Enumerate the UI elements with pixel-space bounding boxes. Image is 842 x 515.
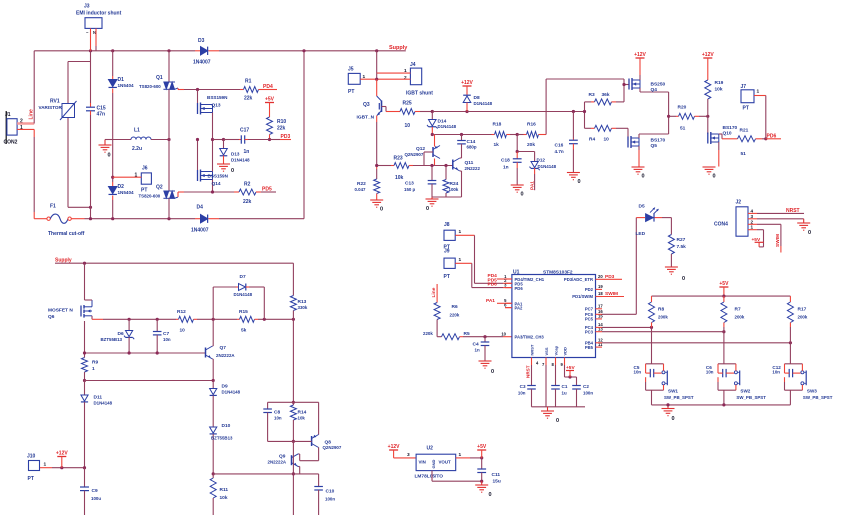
net label PD3 pin20: [602, 278, 622, 280]
svg-text:PA1: PA1: [530, 181, 536, 190]
svg-text:15u: 15u: [493, 479, 501, 485]
svg-text:22k: 22k: [244, 96, 253, 102]
svg-text:~: ~: [86, 30, 89, 35]
svg-text:C10: C10: [326, 489, 335, 495]
resistor R27 7.5k: [668, 235, 674, 255]
wire switch ground bus: [652, 404, 791, 406]
resistor R23 10k: [377, 165, 391, 167]
svg-text:47n: 47n: [97, 112, 106, 118]
wire J4 pin2: [377, 78, 411, 80]
svg-text:2N2222: 2N2222: [465, 166, 481, 171]
svg-text:+5V: +5V: [265, 97, 275, 103]
svg-text:100n: 100n: [583, 391, 593, 396]
svg-text:+12V: +12V: [388, 444, 400, 450]
svg-text:R16: R16: [527, 122, 536, 128]
svg-text:Q2N2907: Q2N2907: [323, 445, 342, 450]
svg-text:PT: PT: [348, 89, 354, 95]
svg-text:Q14: Q14: [212, 181, 221, 187]
wire main vertical lower: [292, 441, 294, 515]
capacitor C12 10n: [784, 364, 786, 369]
resistor R1 22k: [240, 89, 244, 91]
svg-text:1N4007: 1N4007: [193, 60, 211, 66]
wire J4 pin1: [377, 72, 411, 74]
wire mid node to C17: [213, 139, 224, 141]
svg-text:R27: R27: [677, 237, 686, 243]
svg-text:0: 0: [713, 174, 716, 180]
svg-text:22k: 22k: [277, 126, 286, 132]
diode D3 1N4007: [195, 50, 200, 52]
resistor R22 0.047: [376, 166, 378, 170]
power +12V Q4: [636, 57, 645, 59]
svg-text:D7: D7: [240, 274, 246, 280]
wire Q1 gate line: [177, 88, 179, 90]
transistor Q12 Q2N2907: [434, 135, 436, 147]
svg-text:J6: J6: [142, 166, 148, 172]
svg-text:9: 9: [561, 362, 564, 367]
resistor R16 20k: [517, 134, 523, 136]
wire switch branch bottom SW1: [646, 389, 664, 391]
svg-text:PA2: PA2: [515, 306, 524, 311]
pin stub PA2: [505, 307, 512, 309]
diode D13 D1N4148: [223, 140, 225, 149]
svg-text:0: 0: [380, 207, 383, 213]
wire Q3 gate: [382, 106, 387, 108]
svg-text:PC5: PC5: [585, 317, 594, 322]
svg-text:Vcap: Vcap: [554, 345, 559, 355]
ground 0 under C13: [431, 197, 433, 199]
svg-text:2.2u: 2.2u: [132, 146, 142, 152]
svg-text:R5: R5: [464, 331, 470, 337]
svg-text:Q2: Q2: [156, 185, 163, 191]
svg-text:PD6: PD6: [515, 286, 524, 291]
svg-text:STM8S103F2: STM8S103F2: [543, 270, 573, 276]
svg-text:2: 2: [404, 75, 407, 81]
svg-text:680p: 680p: [467, 145, 477, 150]
power +12V R19: [703, 57, 712, 59]
wire top bus: [34, 50, 195, 52]
igbt Q3 IGBT_N: [376, 79, 378, 96]
svg-text:10k: 10k: [298, 416, 306, 421]
svg-text:0: 0: [556, 418, 559, 424]
net label PD4: [497, 278, 512, 280]
wire D4 return vertical: [219, 218, 304, 220]
svg-text:7.5k: 7.5k: [677, 244, 687, 250]
svg-text:1N5404: 1N5404: [118, 190, 135, 195]
svg-text:BSS159N: BSS159N: [207, 95, 228, 100]
svg-text:220k: 220k: [450, 313, 460, 318]
svg-text:GND: GND: [431, 460, 436, 469]
svg-text:0: 0: [489, 492, 492, 498]
wire pullup rail: [652, 295, 791, 297]
diode D8 D1N4148: [463, 96, 471, 102]
wire Supply vertical: [376, 51, 378, 73]
svg-text:R21: R21: [740, 128, 749, 134]
diode D12 D1N4148: [517, 151, 534, 153]
svg-text:PT: PT: [444, 274, 450, 280]
ground 0 under C16: [567, 172, 580, 174]
wire switch branch top SW2: [723, 332, 725, 364]
svg-text:Thermal cut-off: Thermal cut-off: [48, 231, 85, 237]
svg-text:8: 8: [552, 362, 555, 367]
svg-text:C11: C11: [492, 472, 501, 478]
resistor R5 220k: [437, 336, 441, 338]
svg-text:10n: 10n: [518, 391, 526, 396]
svg-text:R17: R17: [798, 307, 807, 313]
svg-text:R6: R6: [452, 304, 458, 310]
wire supply rail: [55, 262, 293, 264]
resistor R4 10: [585, 127, 592, 129]
capacitor C2 100n: [572, 385, 581, 387]
svg-text:SW1: SW1: [668, 389, 678, 394]
wire Q6 source line: [103, 318, 176, 320]
wire LED to R27: [655, 217, 663, 219]
svg-text:3: 3: [751, 214, 754, 219]
ground 0 under R22: [370, 199, 383, 201]
svg-text:10n: 10n: [772, 370, 780, 375]
wire switch branch top SW1: [651, 327, 653, 363]
net label PD6: [766, 138, 781, 140]
svg-text:NRST: NRST: [526, 365, 531, 378]
svg-text:R25: R25: [403, 101, 412, 107]
svg-text:D1N4148: D1N4148: [438, 124, 457, 129]
svg-text:J9: J9: [444, 249, 450, 255]
svg-text:PD5: PD5: [262, 187, 272, 193]
mosfet Q4 BS250: [628, 79, 630, 90]
resistor R3 36k: [585, 101, 592, 103]
svg-text:10: 10: [604, 137, 610, 143]
svg-text:0: 0: [108, 153, 111, 159]
resistor R19 10k: [705, 80, 711, 99]
resistor R13 330k: [292, 263, 294, 295]
svg-text:3: 3: [407, 452, 410, 458]
svg-text:BS250: BS250: [651, 82, 666, 88]
ground 0 switches: [667, 405, 669, 408]
wire R18 line: [432, 134, 491, 136]
capacitor C16 4.7n: [572, 112, 574, 139]
diode D7 D1N4148: [212, 287, 214, 319]
svg-text:36k: 36k: [602, 92, 610, 98]
svg-text:J8: J8: [444, 222, 450, 228]
resistor R25 10: [400, 109, 415, 115]
svg-text:D12: D12: [537, 158, 546, 163]
diode D2 1N5404: [112, 140, 114, 183]
svg-text:10n: 10n: [706, 370, 714, 375]
svg-text:5k: 5k: [241, 328, 247, 334]
svg-text:10k: 10k: [220, 495, 228, 501]
svg-text:100n: 100n: [325, 497, 335, 502]
fuse F1 Thermal cut-off: [34, 218, 47, 220]
wire J6 pin1: [113, 176, 142, 178]
svg-text:2N2222A: 2N2222A: [216, 353, 235, 358]
capacitor C1 1u: [551, 385, 560, 387]
svg-text:PD3/ADC_ETR: PD3/ADC_ETR: [564, 277, 593, 282]
capacitor C15 47n: [90, 51, 92, 103]
wire R13 down to snubber box: [292, 319, 294, 402]
svg-text:7: 7: [542, 362, 545, 367]
resistor R12 10: [176, 318, 179, 320]
svg-text:1: 1: [757, 89, 760, 95]
svg-text:PT: PT: [743, 106, 749, 112]
net label PD4: [262, 89, 277, 91]
svg-text:PA1: PA1: [486, 298, 495, 304]
svg-text:C2: C2: [583, 384, 589, 389]
svg-text:C7: C7: [163, 331, 169, 337]
svg-text:1: 1: [459, 229, 462, 235]
svg-text:C17: C17: [240, 128, 249, 134]
svg-text:R20: R20: [678, 105, 687, 111]
svg-text:PD1/SWIM: PD1/SWIM: [572, 294, 593, 299]
switch SW3 SW_PB_SPST: [801, 371, 804, 374]
svg-text:D1N4148: D1N4148: [94, 401, 113, 406]
svg-text:R18: R18: [493, 122, 502, 128]
svg-text:PT: PT: [28, 476, 34, 482]
resistor R15 5k: [237, 318, 240, 320]
svg-text:Line: Line: [29, 109, 35, 119]
svg-text:2N2222A: 2N2222A: [268, 459, 287, 464]
wire left vertical to bus: [33, 51, 35, 124]
svg-text:PD3: PD3: [281, 134, 291, 140]
svg-text:C1: C1: [562, 384, 568, 389]
wire pin12 to R17: [602, 342, 790, 344]
capacitor C10 100n: [318, 474, 320, 487]
svg-text:C16: C16: [555, 143, 564, 149]
svg-text:U2: U2: [427, 446, 434, 452]
wire Q2 gate line: [177, 192, 179, 197]
capacitor C6 10n: [717, 364, 719, 369]
transistor Q8 Q2N2907: [318, 402, 320, 434]
svg-text:SW2: SW2: [740, 389, 750, 394]
svg-text:330k: 330k: [298, 305, 308, 310]
wire J10 pin1: [40, 467, 52, 469]
svg-text:0: 0: [672, 416, 675, 422]
svg-text:U1: U1: [513, 270, 520, 276]
svg-text:RV1: RV1: [50, 99, 60, 105]
svg-text:TS820-600: TS820-600: [139, 84, 161, 89]
ground 0 at D13: [217, 163, 230, 165]
svg-text:10n: 10n: [634, 370, 642, 375]
svg-text:10n: 10n: [274, 416, 282, 421]
capacitor C18 1n: [516, 135, 518, 152]
svg-text:D1N4148: D1N4148: [234, 292, 253, 297]
svg-text:D1N4148: D1N4148: [222, 390, 241, 395]
wire J2 pin2 SWIM: [748, 223, 757, 225]
connector J1 CON2: [5, 111, 7, 144]
wire Q8 collector to Q9: [300, 460, 319, 462]
svg-text:Line: Line: [431, 287, 437, 297]
svg-text:D4: D4: [197, 205, 204, 211]
svg-text:BZT55B13: BZT55B13: [211, 436, 233, 441]
ic U2 LM78L05: [416, 454, 456, 470]
svg-text:220k: 220k: [423, 331, 433, 336]
resistor R20 51: [669, 115, 676, 117]
svg-text:1N5404: 1N5404: [118, 83, 135, 88]
svg-text:10n: 10n: [163, 337, 171, 342]
svg-text:10: 10: [405, 123, 411, 129]
svg-text:10: 10: [501, 331, 506, 336]
ground 0 under Q10: [703, 166, 716, 168]
svg-text:D1N4148: D1N4148: [538, 164, 557, 169]
svg-text:1: 1: [459, 257, 462, 263]
svg-text:2: 2: [751, 219, 754, 224]
wire J2 pin1 +5V: [748, 229, 757, 231]
net label PD3: [270, 139, 281, 141]
svg-text:1n: 1n: [475, 348, 480, 353]
svg-text:PD6: PD6: [488, 282, 498, 288]
svg-text:17: 17: [598, 304, 603, 309]
wire Q11 emitter bottom: [432, 196, 462, 198]
svg-text:Supply: Supply: [55, 258, 72, 264]
svg-text:J10: J10: [27, 454, 36, 460]
svg-text:SW_PB_SPST: SW_PB_SPST: [664, 395, 694, 400]
wire R11 C10 link: [213, 473, 318, 475]
power +5V U2: [477, 449, 486, 451]
wire totem output: [668, 92, 670, 134]
svg-text:19: 19: [598, 284, 603, 289]
ground 0 at J2: [797, 222, 810, 224]
wire split node R3 R4: [584, 102, 586, 112]
svg-text:BZT55B13: BZT55B13: [101, 337, 123, 342]
svg-text:150 p: 150 p: [404, 187, 416, 192]
resistor R11 10k: [210, 478, 216, 498]
svg-text:0.047: 0.047: [355, 187, 367, 192]
svg-text:+12V: +12V: [702, 52, 714, 58]
ground 0 under C4: [479, 360, 492, 362]
resistor R21 51: [738, 136, 756, 142]
svg-text:1n: 1n: [503, 165, 509, 171]
svg-text:IGBT_N: IGBT_N: [357, 115, 375, 121]
wire switch branch bottom SW3: [785, 389, 803, 391]
transistor Q9 2N2222A: [291, 455, 293, 465]
svg-text:1N4007: 1N4007: [191, 228, 209, 234]
svg-text:0: 0: [521, 192, 524, 198]
wire J2 pin3 to ground: [748, 218, 757, 220]
svg-text:PD3: PD3: [605, 274, 615, 280]
svg-text:PD2: PD2: [585, 287, 594, 292]
wire bottom bus: [85, 218, 196, 220]
svg-text:R10: R10: [277, 119, 286, 125]
power +12V U2: [389, 449, 398, 451]
svg-text:Q3: Q3: [363, 102, 370, 108]
svg-text:51: 51: [741, 151, 747, 157]
svg-text:R19: R19: [715, 80, 724, 86]
wire RV1 branch bottom: [68, 206, 91, 208]
svg-text:1k: 1k: [494, 142, 500, 148]
svg-text:CON2: CON2: [4, 140, 18, 146]
svg-text:R23: R23: [394, 156, 403, 162]
svg-text:R12: R12: [177, 309, 186, 315]
svg-text:0: 0: [491, 369, 494, 375]
svg-text:D10: D10: [222, 423, 231, 429]
svg-text:PD6: PD6: [767, 134, 777, 140]
wire pin16 to LED: [602, 313, 636, 315]
svg-text:R4: R4: [589, 137, 595, 143]
net label PD5: [261, 191, 276, 193]
power +12V D8: [463, 85, 472, 87]
U1 pin stubs left: [505, 278, 512, 280]
ground 0 under R27: [665, 266, 678, 268]
resistor R9 1: [82, 358, 88, 373]
svg-text:VSS: VSS: [544, 347, 549, 355]
wire J2 pin4 NRST: [748, 212, 757, 214]
svg-text:Q6: Q6: [48, 314, 55, 320]
svg-text:VIN: VIN: [419, 460, 426, 465]
wire J9 to PD6 pin: [455, 262, 472, 264]
wire U2 vout: [456, 457, 470, 459]
ground 0 under C18: [511, 184, 524, 186]
svg-text:LM78L05/TO: LM78L05/TO: [415, 474, 444, 480]
wire left vertical to fuse: [33, 129, 35, 137]
svg-text:VARISTOR: VARISTOR: [39, 105, 63, 110]
wire J3 pin2: [95, 28, 97, 46]
resistor R8 200k: [651, 296, 653, 302]
triac Q2 TS820-600: [168, 140, 170, 191]
wire CON2 pin1: [17, 128, 34, 130]
wire L1 to triac node: [151, 139, 169, 141]
resistor R24 100k: [445, 166, 447, 180]
resistor R10 22k: [267, 117, 273, 135]
diode D4 1N4007: [195, 218, 200, 220]
svg-text:TS820-600: TS820-600: [139, 193, 161, 198]
svg-text:22k: 22k: [243, 199, 252, 205]
svg-text:R3: R3: [589, 92, 595, 98]
svg-text:200k: 200k: [735, 315, 745, 320]
wire J5 pin1: [360, 78, 377, 80]
ic U1 STM8S103F2: [512, 275, 596, 358]
capacitor C7 10n: [156, 319, 158, 331]
svg-text:LED: LED: [636, 231, 646, 237]
svg-text:EMI inductor shunt: EMI inductor shunt: [76, 11, 122, 17]
wire D6 C7 to Q7 base: [85, 352, 206, 354]
svg-text:20k: 20k: [527, 142, 535, 148]
mosfet Q10 BS170: [707, 116, 709, 134]
svg-text:C3: C3: [520, 384, 526, 389]
wire RV1 branch top: [68, 61, 91, 63]
svg-text:1: 1: [751, 225, 754, 230]
svg-text:R11: R11: [220, 487, 229, 493]
svg-text:10k: 10k: [715, 87, 723, 93]
resistor R6 220k: [434, 303, 440, 320]
ground 0 at L1: [105, 139, 113, 141]
svg-text:J3: J3: [84, 4, 90, 10]
transistor Q11 2N2222: [452, 160, 454, 170]
svg-text:D3: D3: [198, 38, 205, 44]
capacitor C9 100u: [84, 468, 86, 487]
capacitor C8 10n: [267, 402, 269, 409]
capacitor C13 150p: [431, 166, 433, 181]
svg-text:0: 0: [231, 168, 234, 174]
svg-text:VDD: VDD: [563, 347, 568, 356]
svg-text:PA3/TIM2_CH3: PA3/TIM2_CH3: [515, 334, 545, 339]
svg-text:SW_PB_SPST: SW_PB_SPST: [803, 395, 833, 400]
svg-text:L1: L1: [134, 128, 140, 134]
svg-text:1n: 1n: [244, 149, 250, 155]
mosfet Q5 BS170: [627, 137, 629, 148]
wire pin14 to R8: [602, 326, 652, 328]
svg-text:CON4: CON4: [714, 222, 728, 228]
wire Q4 gate: [624, 84, 629, 86]
svg-text:R1: R1: [245, 79, 252, 85]
svg-text:10k: 10k: [395, 175, 404, 181]
wire U2 gnd pin: [431, 471, 433, 482]
wire J3 pin1: [90, 28, 92, 50]
capacitor C3 10n: [527, 385, 536, 387]
transistor Q7 2N2222A: [205, 348, 207, 358]
svg-text:SW3: SW3: [807, 389, 817, 394]
svg-text:R2: R2: [244, 182, 251, 188]
resistor R14 10k: [292, 402, 294, 405]
svg-text:SW_PB_SPST: SW_PB_SPST: [736, 395, 766, 400]
svg-text:R15: R15: [239, 309, 248, 315]
